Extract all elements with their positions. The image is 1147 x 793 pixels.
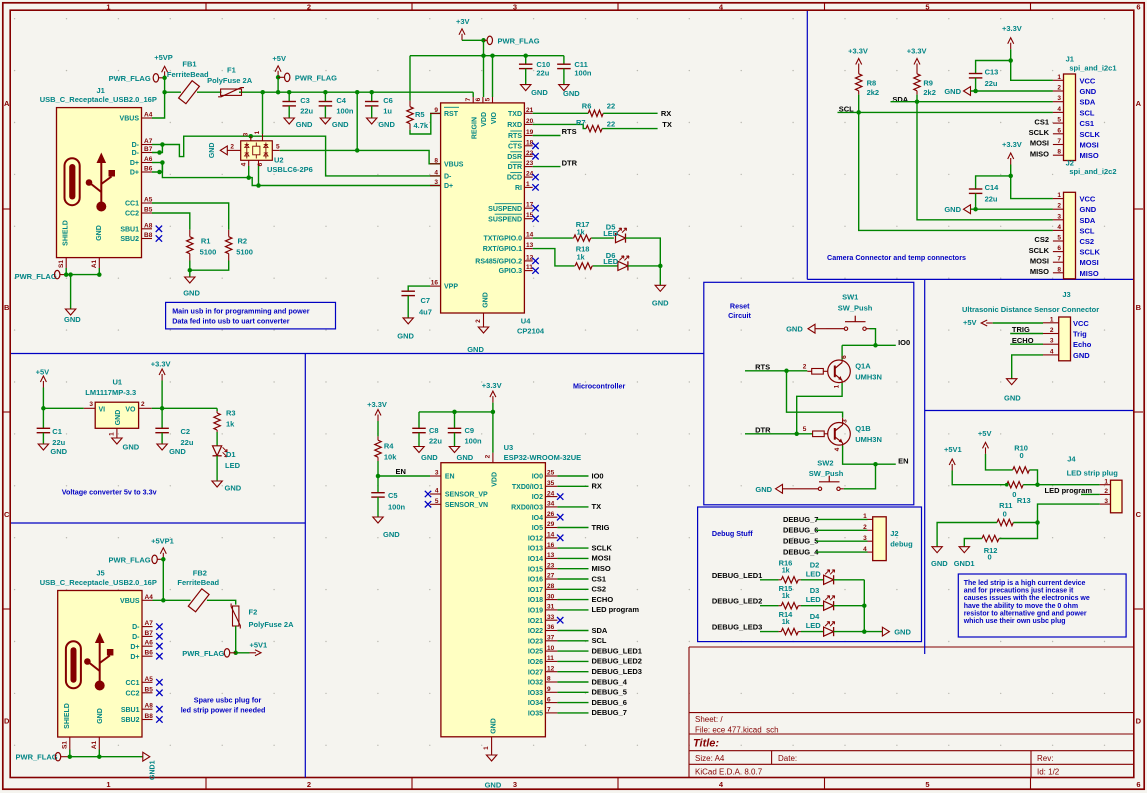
svg-text:RI: RI bbox=[515, 185, 522, 192]
svg-text:J2: J2 bbox=[890, 529, 898, 538]
svg-text:GND: GND bbox=[296, 120, 313, 129]
svg-text:4.7k: 4.7k bbox=[414, 121, 429, 130]
svg-text:IO32: IO32 bbox=[528, 680, 543, 687]
svg-text:FB1: FB1 bbox=[182, 60, 196, 69]
power symbol +3.3V at R9 bbox=[907, 46, 927, 70]
LED D3 bbox=[806, 586, 865, 610]
svg-text:R13: R13 bbox=[1017, 496, 1031, 505]
wire VBUS to +5VP rail bbox=[152, 76, 167, 118]
svg-text:30: 30 bbox=[547, 593, 555, 600]
power flag PWR_FLAG at J1 shield bbox=[15, 270, 67, 281]
ground symbol GND1 net bbox=[143, 752, 157, 780]
svg-text:A1: A1 bbox=[91, 740, 98, 749]
svg-text:S1: S1 bbox=[58, 260, 65, 268]
ground at C1 bbox=[38, 444, 67, 456]
svg-text:MOSI: MOSI bbox=[1080, 141, 1099, 150]
svg-text:J1: J1 bbox=[97, 86, 105, 95]
svg-text:SCLK: SCLK bbox=[592, 543, 613, 552]
svg-text:ESP32-WROOM-32UE: ESP32-WROOM-32UE bbox=[504, 453, 582, 462]
svg-text:23: 23 bbox=[526, 160, 534, 167]
ferrite bead FB2 bbox=[177, 568, 219, 612]
svg-text:GND: GND bbox=[931, 559, 948, 568]
svg-text:5: 5 bbox=[925, 2, 929, 11]
svg-text:Title:: Title: bbox=[693, 738, 719, 750]
svg-text:GND: GND bbox=[491, 718, 498, 734]
resistor R2 5100 bbox=[226, 230, 253, 261]
svg-text:VBUS: VBUS bbox=[444, 161, 464, 168]
svg-text:A7: A7 bbox=[145, 620, 154, 627]
ground at C11 bbox=[559, 85, 581, 98]
svg-text:C7: C7 bbox=[421, 296, 431, 305]
resistor R4 10k bbox=[375, 421, 397, 476]
svg-text:21: 21 bbox=[526, 107, 534, 114]
svg-text:VCC: VCC bbox=[1080, 76, 1096, 85]
capacitor C9 100n bbox=[448, 412, 482, 447]
label DEBUG_LED2 bbox=[712, 597, 779, 606]
resistor R16 1k bbox=[779, 558, 824, 583]
ground at D5 D6 bbox=[652, 285, 669, 307]
capacitor C14 22u bbox=[969, 176, 1011, 212]
power flag PWR_FLAG at +5V bbox=[278, 73, 337, 82]
svg-text:A5: A5 bbox=[144, 197, 153, 204]
connector J3 Ultrasonic bbox=[962, 290, 1099, 361]
svg-text:SCLK: SCLK bbox=[1029, 246, 1050, 255]
svg-text:1: 1 bbox=[1104, 478, 1108, 485]
svg-text:R8: R8 bbox=[867, 78, 877, 87]
resistor R6 22 on TXD bbox=[533, 102, 658, 117]
svg-text:IO33: IO33 bbox=[528, 690, 543, 697]
svg-text:have the ability to move the 0: have the ability to move the 0 ohm bbox=[964, 603, 1078, 610]
svg-text:5: 5 bbox=[925, 780, 929, 789]
svg-text:IO25: IO25 bbox=[528, 649, 543, 656]
wire J1 shield and gnd bbox=[64, 268, 102, 309]
svg-text:CS1: CS1 bbox=[592, 574, 607, 583]
svg-text:LED program: LED program bbox=[592, 605, 640, 614]
ground at C6 bbox=[367, 118, 396, 129]
power flag PWR_FLAG at J5 shield bbox=[16, 753, 70, 762]
svg-text:27: 27 bbox=[547, 573, 555, 580]
capacitor C11 100n bbox=[557, 56, 592, 85]
power flag PWR_FLAG at +5VP1 bbox=[109, 555, 164, 564]
resistor R7 22 on RXD bbox=[533, 118, 658, 132]
label SDA wire bbox=[891, 95, 1053, 220]
svg-text:100n: 100n bbox=[465, 437, 483, 446]
svg-text:DCD: DCD bbox=[507, 175, 522, 182]
svg-text:GND: GND bbox=[123, 443, 140, 452]
svg-text:RTS: RTS bbox=[562, 127, 577, 136]
svg-text:22u: 22u bbox=[985, 195, 998, 204]
ground at J3 bbox=[1004, 379, 1021, 403]
svg-text:PWR_FLAG: PWR_FLAG bbox=[109, 555, 151, 564]
svg-text:D+: D+ bbox=[444, 183, 453, 190]
svg-text:13: 13 bbox=[526, 242, 534, 249]
connector J2 debug bbox=[783, 513, 913, 561]
svg-text:GND: GND bbox=[1004, 394, 1021, 403]
svg-text:SW2: SW2 bbox=[817, 458, 833, 467]
svg-text:B: B bbox=[1136, 303, 1142, 312]
svg-text:IO14: IO14 bbox=[528, 556, 543, 563]
svg-text:MISO: MISO bbox=[1080, 151, 1099, 160]
svg-text:Echo: Echo bbox=[1073, 340, 1092, 349]
svg-text:5: 5 bbox=[1057, 235, 1061, 242]
label ECHO wire bbox=[1010, 336, 1043, 345]
svg-text:SUSPEND: SUSPEND bbox=[488, 206, 522, 213]
svg-text:R3: R3 bbox=[226, 409, 236, 418]
svg-text:GND: GND bbox=[563, 89, 580, 98]
svg-text:IO16: IO16 bbox=[528, 577, 543, 584]
svg-text:EN: EN bbox=[445, 474, 455, 481]
svg-text:D: D bbox=[4, 717, 10, 726]
svg-text:0: 0 bbox=[1003, 510, 1007, 519]
svg-text:+3V: +3V bbox=[456, 17, 470, 26]
svg-text:22u: 22u bbox=[300, 107, 313, 116]
svg-text:23: 23 bbox=[547, 562, 555, 569]
svg-text:GND: GND bbox=[1080, 205, 1097, 214]
note led strip high current bbox=[958, 574, 1126, 637]
svg-text:VPP: VPP bbox=[444, 284, 458, 291]
svg-text:+5VP: +5VP bbox=[154, 53, 173, 62]
svg-text:F2: F2 bbox=[249, 608, 258, 617]
svg-text:DEBUG_7: DEBUG_7 bbox=[592, 708, 627, 717]
svg-text:GND: GND bbox=[755, 485, 772, 494]
svg-text:PWR_FLAG: PWR_FLAG bbox=[16, 753, 58, 762]
svg-text:CC1: CC1 bbox=[125, 201, 139, 208]
svg-text:spi_and_i2c1: spi_and_i2c1 bbox=[1069, 63, 1116, 72]
svg-text:1: 1 bbox=[109, 432, 116, 436]
svg-text:IO35: IO35 bbox=[528, 711, 543, 718]
svg-text:+3.3V: +3.3V bbox=[482, 381, 502, 390]
svg-text:2: 2 bbox=[307, 780, 311, 789]
svg-text:D2: D2 bbox=[810, 560, 820, 569]
svg-text:1: 1 bbox=[526, 181, 530, 188]
transistor Q1B UMH3N bbox=[803, 418, 882, 452]
no-connect U4 right pins bbox=[532, 143, 538, 274]
power symbol +5V at U1 bbox=[36, 368, 50, 411]
svg-text:0: 0 bbox=[988, 553, 992, 562]
svg-text:37: 37 bbox=[547, 635, 555, 642]
svg-text:ECHO: ECHO bbox=[592, 595, 614, 604]
svg-text:+5VP1: +5VP1 bbox=[151, 537, 174, 546]
svg-text:B5: B5 bbox=[144, 207, 153, 214]
svg-text:VCC: VCC bbox=[1073, 319, 1089, 328]
svg-text:spi_and_i2c2: spi_and_i2c2 bbox=[1069, 167, 1116, 176]
svg-text:VDD: VDD bbox=[492, 472, 499, 487]
wire FB2 to F2 bbox=[207, 600, 236, 604]
debug section box bbox=[698, 507, 922, 642]
svg-text:C: C bbox=[4, 510, 10, 519]
svg-text:J3: J3 bbox=[1062, 290, 1070, 299]
svg-text:+5V1: +5V1 bbox=[250, 641, 268, 650]
svg-text:2: 2 bbox=[1057, 85, 1061, 92]
svg-text:28: 28 bbox=[547, 583, 555, 590]
IC U2 USBLC6-2P6 bbox=[228, 130, 313, 174]
svg-text:R9: R9 bbox=[923, 78, 933, 87]
svg-text:VIO: VIO bbox=[491, 111, 498, 124]
svg-text:100n: 100n bbox=[336, 107, 354, 116]
svg-text:A4: A4 bbox=[144, 112, 153, 119]
svg-text:GND: GND bbox=[225, 484, 242, 493]
svg-text:Debug Stuff: Debug Stuff bbox=[712, 529, 753, 538]
svg-text:35: 35 bbox=[547, 480, 555, 487]
svg-text:SBU1: SBU1 bbox=[120, 226, 139, 233]
svg-text:J4: J4 bbox=[1067, 455, 1076, 464]
wire R1 R2 bottoms joined bbox=[188, 261, 229, 278]
wire CC2 to R1 bbox=[152, 213, 190, 230]
svg-text:1k: 1k bbox=[782, 617, 790, 626]
svg-text:GND: GND bbox=[652, 299, 669, 308]
svg-text:LED: LED bbox=[806, 569, 822, 578]
svg-text:D-: D- bbox=[132, 634, 140, 641]
svg-text:IO27: IO27 bbox=[528, 669, 543, 676]
svg-text:Microcontroller: Microcontroller bbox=[573, 381, 626, 390]
svg-text:7: 7 bbox=[1057, 256, 1061, 263]
svg-text:GND: GND bbox=[421, 453, 438, 462]
svg-text:33: 33 bbox=[547, 614, 555, 621]
svg-text:GND: GND bbox=[383, 530, 400, 539]
capacitor C10 22u bbox=[519, 56, 550, 85]
svg-text:GND: GND bbox=[482, 292, 489, 308]
svg-text:IO2: IO2 bbox=[532, 494, 543, 501]
power symbol +3.3V at C13 bbox=[1002, 24, 1053, 80]
svg-text:DEBUG_LED1: DEBUG_LED1 bbox=[592, 646, 642, 655]
svg-text:C: C bbox=[1136, 510, 1142, 519]
svg-text:D-: D- bbox=[132, 624, 140, 631]
svg-text:SDA: SDA bbox=[1080, 98, 1096, 107]
svg-text:2: 2 bbox=[475, 319, 482, 323]
svg-text:debug: debug bbox=[890, 540, 913, 549]
svg-text:A: A bbox=[4, 99, 10, 108]
connector J4 LED strip plug bbox=[1067, 455, 1122, 513]
svg-text:C6: C6 bbox=[383, 96, 393, 105]
svg-text:J1: J1 bbox=[1066, 55, 1074, 64]
svg-text:LED: LED bbox=[603, 229, 619, 238]
svg-text:Spare usbc plug for: Spare usbc plug for bbox=[194, 696, 262, 705]
svg-text:GND: GND bbox=[397, 332, 414, 341]
svg-text:D: D bbox=[1136, 717, 1142, 726]
svg-text:100n: 100n bbox=[574, 69, 592, 78]
svg-text:29: 29 bbox=[547, 521, 555, 528]
label EN wire bbox=[376, 467, 430, 478]
svg-text:4: 4 bbox=[1057, 224, 1061, 231]
svg-text:TX: TX bbox=[662, 120, 672, 129]
svg-text:3: 3 bbox=[513, 780, 517, 789]
wire D- net from J1 to U2 and U4 bbox=[152, 134, 441, 176]
svg-text:MOSI: MOSI bbox=[592, 554, 611, 563]
svg-text:GND: GND bbox=[97, 708, 104, 724]
svg-text:PWR_FLAG: PWR_FLAG bbox=[109, 74, 151, 83]
svg-text:U3: U3 bbox=[504, 443, 514, 452]
regulator U1 LM1117MP-3.3 bbox=[84, 378, 152, 439]
note spare usbc bbox=[181, 696, 266, 715]
svg-text:CTS: CTS bbox=[508, 143, 522, 150]
svg-text:SW_Push: SW_Push bbox=[809, 469, 844, 478]
svg-text:R6: R6 bbox=[582, 102, 592, 111]
svg-text:UMH3N: UMH3N bbox=[855, 435, 882, 444]
svg-text:CS2: CS2 bbox=[592, 585, 607, 594]
svg-text:GND: GND bbox=[209, 143, 216, 159]
svg-text:SBU2: SBU2 bbox=[121, 717, 140, 724]
svg-text:5: 5 bbox=[276, 143, 280, 150]
svg-text:5100: 5100 bbox=[200, 248, 217, 257]
svg-text:LED strip plug: LED strip plug bbox=[1067, 468, 1119, 477]
LED D4 bbox=[806, 612, 865, 636]
ground at U4 pin2 bbox=[467, 327, 489, 354]
ground at U2 pin2 bbox=[209, 143, 227, 159]
label DEBUG_LED1 bbox=[712, 571, 779, 580]
svg-text:6: 6 bbox=[1057, 245, 1061, 252]
svg-text:DEBUG_4: DEBUG_4 bbox=[783, 548, 819, 557]
resistor R1 5100 bbox=[187, 230, 217, 261]
svg-text:SENSOR_VP: SENSOR_VP bbox=[445, 492, 488, 499]
label DTR reset bbox=[745, 425, 813, 434]
svg-text:+3.3V: +3.3V bbox=[907, 46, 927, 55]
svg-text:1k: 1k bbox=[577, 227, 585, 236]
svg-text:B8: B8 bbox=[145, 713, 154, 720]
svg-text:PWR_FLAG: PWR_FLAG bbox=[498, 37, 540, 46]
svg-text:SDA: SDA bbox=[1080, 216, 1096, 225]
power symbol +5V1 bbox=[250, 641, 268, 656]
svg-text:DEBUG_6: DEBUG_6 bbox=[783, 526, 818, 535]
svg-text:1: 1 bbox=[106, 2, 110, 11]
svg-text:SCL: SCL bbox=[1080, 108, 1095, 117]
svg-text:Sheet: /: Sheet: / bbox=[695, 715, 723, 724]
svg-text:CC2: CC2 bbox=[125, 211, 139, 218]
svg-text:2: 2 bbox=[485, 454, 492, 458]
svg-text:RXD: RXD bbox=[507, 122, 522, 129]
label LED program at J4 bbox=[1045, 486, 1100, 495]
svg-text:4: 4 bbox=[1057, 106, 1061, 113]
svg-text:8: 8 bbox=[1057, 266, 1061, 273]
svg-text:SCLK: SCLK bbox=[1029, 128, 1050, 137]
svg-text:VI: VI bbox=[99, 406, 106, 413]
note main usb bbox=[166, 302, 336, 329]
svg-text:1: 1 bbox=[483, 746, 490, 750]
IC U4 CP2104 bbox=[430, 92, 545, 335]
svg-text:0: 0 bbox=[1012, 490, 1016, 499]
power symbol +5V1 led strip bbox=[944, 445, 1007, 485]
svg-text:8: 8 bbox=[547, 676, 551, 683]
svg-text:Trig: Trig bbox=[1073, 330, 1087, 339]
svg-text:SENSOR_VN: SENSOR_VN bbox=[445, 502, 488, 509]
svg-text:8: 8 bbox=[434, 157, 438, 164]
wire U1 output bbox=[152, 407, 217, 409]
svg-text:3: 3 bbox=[1104, 498, 1108, 505]
svg-text:C13: C13 bbox=[985, 67, 999, 76]
svg-text:D3: D3 bbox=[810, 586, 820, 595]
svg-text:GND: GND bbox=[64, 315, 81, 324]
svg-text:D+: D+ bbox=[130, 160, 139, 167]
svg-text:USBLC6-2P6: USBLC6-2P6 bbox=[267, 165, 313, 174]
capacitor C13 22u bbox=[969, 61, 1011, 94]
svg-text:RXT/GPIO.1: RXT/GPIO.1 bbox=[483, 246, 522, 253]
svg-text:26: 26 bbox=[547, 511, 555, 518]
label DTR wire bbox=[533, 158, 578, 167]
wire +3.3V rail at ESP32 bbox=[419, 403, 495, 453]
svg-text:DSR: DSR bbox=[507, 154, 522, 161]
svg-text:C8: C8 bbox=[429, 426, 439, 435]
svg-text:led strip power if needed: led strip power if needed bbox=[181, 706, 266, 715]
svg-text:3: 3 bbox=[89, 401, 93, 408]
svg-text:CS2: CS2 bbox=[1080, 237, 1095, 246]
svg-text:RXD0/IO3: RXD0/IO3 bbox=[511, 505, 543, 512]
power symbol +3.3V at C14 bbox=[1002, 140, 1053, 199]
svg-text:+5V: +5V bbox=[272, 54, 286, 63]
svg-text:R4: R4 bbox=[384, 442, 394, 451]
svg-text:S1: S1 bbox=[61, 741, 68, 749]
transistor Q1A UMH3N bbox=[803, 355, 882, 389]
svg-text:RST: RST bbox=[444, 111, 459, 118]
svg-text:20: 20 bbox=[526, 118, 534, 125]
ground at C14 bbox=[944, 205, 1053, 214]
ground at C10 bbox=[521, 85, 549, 97]
svg-text:2: 2 bbox=[1104, 488, 1108, 495]
power symbol +5V led strip bbox=[978, 429, 1013, 470]
svg-text:GND: GND bbox=[894, 628, 911, 637]
svg-text:1k: 1k bbox=[782, 591, 790, 600]
ground under J1 bbox=[64, 309, 81, 324]
svg-text:CS1: CS1 bbox=[1080, 119, 1095, 128]
svg-text:CC1: CC1 bbox=[125, 680, 139, 687]
IC U3 ESP32-WROOM-32UE bbox=[425, 443, 581, 755]
wire J5 shield row bbox=[68, 750, 143, 759]
svg-text:GND: GND bbox=[332, 120, 349, 129]
svg-text:SUSPEND: SUSPEND bbox=[488, 216, 522, 223]
svg-text:D+: D+ bbox=[130, 654, 139, 661]
svg-text:4: 4 bbox=[240, 162, 247, 166]
svg-text:IO13: IO13 bbox=[528, 546, 543, 553]
svg-text:12: 12 bbox=[547, 665, 555, 672]
power flag PWR_FLAG at +5V1 bbox=[182, 649, 235, 658]
svg-text:IO26: IO26 bbox=[528, 659, 543, 666]
svg-text:3: 3 bbox=[434, 179, 438, 186]
ground at C2 bbox=[157, 444, 186, 456]
wire +3V rail bbox=[410, 40, 564, 100]
svg-text:2: 2 bbox=[307, 2, 311, 11]
svg-text:4: 4 bbox=[1050, 348, 1054, 355]
svg-text:GND: GND bbox=[467, 345, 484, 354]
svg-text:D-: D- bbox=[132, 150, 140, 157]
svg-text:7: 7 bbox=[1057, 138, 1061, 145]
svg-text:PWR_FLAG: PWR_FLAG bbox=[182, 649, 224, 658]
power symbol +5VP bbox=[154, 53, 173, 78]
svg-text:SBU2: SBU2 bbox=[120, 236, 139, 243]
svg-text:SDA: SDA bbox=[592, 626, 608, 635]
svg-text:FerriteBead: FerriteBead bbox=[177, 578, 219, 587]
label DEBUG_LED3 bbox=[712, 623, 779, 632]
svg-text:8: 8 bbox=[1057, 149, 1061, 156]
svg-text:DTR: DTR bbox=[508, 164, 522, 171]
svg-text:FB2: FB2 bbox=[193, 568, 207, 577]
svg-text:TXD0/IO1: TXD0/IO1 bbox=[512, 484, 543, 491]
label SCL wire bbox=[838, 104, 1053, 230]
svg-text:+3.3V: +3.3V bbox=[151, 360, 171, 369]
svg-text:GND: GND bbox=[378, 120, 395, 129]
switch SW1 SW_Push bbox=[826, 292, 873, 330]
svg-text:A: A bbox=[1136, 99, 1142, 108]
ground at R1 R2 bbox=[183, 277, 200, 298]
LED D6 bbox=[603, 251, 662, 285]
svg-text:DEBUG_LED1: DEBUG_LED1 bbox=[712, 571, 762, 580]
svg-text:B7: B7 bbox=[145, 630, 154, 637]
svg-text:DEBUG_6: DEBUG_6 bbox=[592, 698, 627, 707]
svg-text:Data fed into usb to uart conv: Data fed into usb to uart converter bbox=[172, 316, 290, 325]
svg-text:22u: 22u bbox=[181, 438, 194, 447]
svg-text:IO12: IO12 bbox=[528, 535, 543, 542]
svg-text:VDD: VDD bbox=[481, 112, 488, 127]
svg-text:J5: J5 bbox=[96, 568, 104, 577]
svg-text:VO: VO bbox=[125, 406, 136, 413]
svg-text:D+: D+ bbox=[130, 170, 139, 177]
